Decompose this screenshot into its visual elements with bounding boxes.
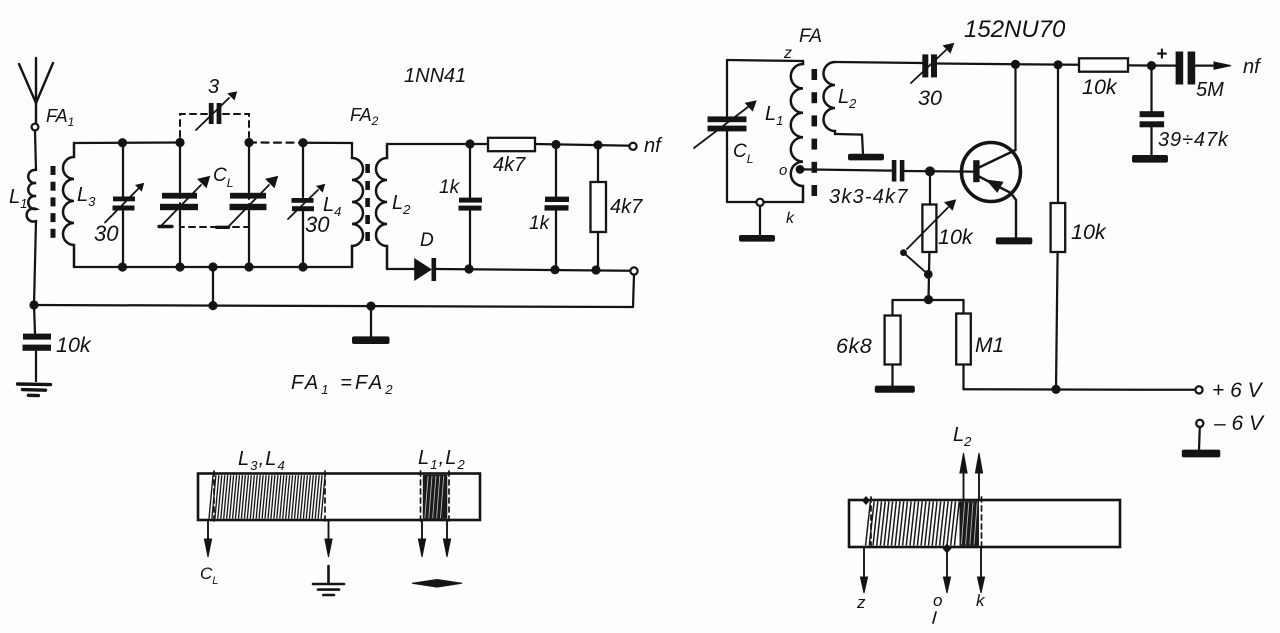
transistor emitter arrow: [988, 181, 1003, 192]
winding right rod: [866, 502, 960, 546]
svg-text:+ 6 V: + 6 V: [1212, 379, 1264, 402]
svg-text:10k: 10k: [1082, 75, 1118, 99]
ferrite rod left: [198, 474, 480, 521]
svg-text:D: D: [420, 230, 434, 251]
capacitor 39-47k: [1150, 66, 1152, 111]
node dots detector top: [465, 139, 602, 149]
capacitor 1k first: [469, 144, 471, 197]
svg-text:152NU70: 152NU70: [964, 16, 1066, 43]
svg-text:z: z: [856, 593, 866, 612]
wire CL bottom: [726, 131, 728, 202]
svg-text:10k: 10k: [1071, 220, 1107, 244]
inductor L2 left: [376, 144, 387, 269]
svg-text:L2: L2: [392, 192, 411, 217]
arrow leads L1L2 rod: [421, 520, 423, 542]
ground bar -6V: [1182, 450, 1221, 458]
core L1/L3: [51, 166, 56, 238]
transistor Q1 152NU70: [962, 143, 1021, 202]
arrow up L2 rod first: [963, 472, 965, 500]
node dot +6V rail: [1051, 385, 1060, 394]
wire detector top rail: [387, 143, 488, 145]
svg-text:L3,L4: L3,L4: [238, 448, 286, 473]
svg-text:CL: CL: [733, 141, 753, 166]
node dots pot bottom: [924, 270, 933, 304]
node k terminal circle: [756, 199, 763, 206]
wire cap to base: [904, 170, 973, 173]
arrow up L2 rod second: [978, 472, 980, 500]
arrow down z: [863, 547, 865, 578]
wire -6V ground stub: [1198, 427, 1201, 450]
svg-text:L2: L2: [838, 86, 857, 111]
svg-text:L1: L1: [9, 186, 27, 211]
ground three-bar rod: [313, 566, 344, 595]
svg-text:nf: nf: [644, 135, 663, 157]
diode D: [415, 260, 431, 280]
svg-text:4k7: 4k7: [493, 154, 526, 176]
inductor L4: [352, 158, 363, 267]
capacitor CL right variable: [708, 116, 747, 122]
wire L1 bottom to rail: [34, 221, 36, 305]
node base junction dot: [925, 166, 935, 176]
svg-text:30: 30: [94, 221, 119, 246]
node junction dots top rail: [118, 138, 308, 147]
node dot 5M junction: [1147, 61, 1156, 70]
wire bias tee bar: [893, 299, 964, 301]
wire trimmer to collector node: [937, 64, 1079, 65]
svg-text:1k: 1k: [529, 213, 551, 234]
svg-text:3k3-4k7: 3k3-4k7: [829, 186, 909, 208]
resistor 4k7 horizontal: [488, 138, 535, 151]
resistor 10k output horizontal: [1079, 58, 1128, 71]
wire antenna to L1: [35, 131, 36, 170]
capacitor 5M electrolytic: [1176, 52, 1184, 85]
wire tank to bottom rail: [212, 267, 214, 306]
wire k ground stub: [759, 206, 761, 236]
node dots detector bottom: [464, 264, 600, 274]
svg-text:o: o: [779, 162, 787, 179]
winding L3 L4: [209, 475, 325, 518]
core FA2: [365, 164, 370, 241]
ground bar L2 right: [848, 154, 884, 161]
node tap o dot: [796, 165, 805, 174]
wire output arrow nf: [1195, 64, 1218, 66]
ground bar 39-47k: [1132, 155, 1168, 163]
svg-text:1NN41: 1NN41: [404, 65, 466, 87]
svg-text:z: z: [783, 45, 792, 62]
node nf terminal top: [629, 143, 636, 150]
svg-text:6k8: 6k8: [836, 334, 872, 358]
inductor L1: [27, 170, 36, 222]
capacitor trimmer 30 right: [302, 143, 304, 197]
svg-text:FA1 =FA2: FA1 =FA2: [291, 372, 396, 397]
ground bar 6k8: [875, 386, 915, 393]
capacitor trimmer 30 left: [122, 143, 124, 196]
capacitor trimmer 3: [209, 103, 214, 124]
wire CL top: [727, 60, 803, 61]
inductor L1 right: [791, 61, 803, 202]
node FA1 terminal: [32, 124, 39, 131]
svg-text:o: o: [933, 591, 942, 610]
resistor 6k8: [891, 300, 893, 316]
resistor 4k7 vertical: [597, 145, 599, 182]
node dots bottom rail: [29, 300, 375, 310]
arrow lead CL rod: [207, 520, 209, 542]
node diamond top rod: [862, 496, 870, 505]
svg-text:10k: 10k: [938, 225, 974, 249]
svg-text:L1: L1: [765, 103, 783, 128]
svg-text:FA2: FA2: [350, 105, 379, 128]
capacitor 1k second: [555, 145, 557, 197]
wire tap o to coupling cap: [804, 169, 892, 170]
svg-text:CL: CL: [200, 564, 218, 587]
svg-text:CL: CL: [213, 165, 233, 190]
wire +6V rail: [964, 388, 1196, 391]
arrow down o: [946, 548, 948, 578]
wire output drop: [633, 275, 634, 307]
svg-text:10k: 10k: [56, 333, 92, 357]
svg-text:k: k: [786, 210, 795, 227]
wire pot bottom: [927, 252, 930, 300]
resistor 10k collector load: [1057, 65, 1059, 203]
node diamond o rod: [943, 544, 952, 554]
node -6V terminal: [1196, 420, 1203, 427]
wire top rail to trimmer: [835, 62, 922, 63]
svg-text:FA: FA: [799, 26, 822, 47]
node dots top right rail: [1011, 60, 1063, 70]
core FA right: [812, 69, 818, 196]
svg-text:M1: M1: [975, 334, 1004, 357]
wire detector bottom rail: [387, 268, 415, 270]
ground bar CL: [739, 235, 775, 242]
capacitor gang CL section 2: [248, 143, 250, 193]
node junction dots bottom tank rail: [118, 262, 308, 271]
svg-text:30: 30: [918, 86, 942, 110]
ground bar mid: [370, 306, 372, 337]
capacitor trimmer 30 right circuit: [922, 54, 928, 77]
svg-text:L2: L2: [953, 424, 972, 449]
wire long bottom rail: [34, 305, 633, 307]
ferrite rod right: [849, 500, 1120, 547]
svg-text:4k7: 4k7: [610, 196, 643, 218]
potentiometer 10k: [929, 171, 931, 204]
winding L1 L2 left rod: [423, 475, 448, 519]
arrow down k: [980, 547, 982, 578]
svg-text:k: k: [976, 591, 986, 610]
node +6V terminal: [1195, 386, 1202, 393]
dashed gang box: [180, 114, 249, 227]
svg-text:L1,L2: L1,L2: [418, 447, 466, 472]
wire L2 bottom to ground: [835, 134, 863, 154]
arrow double horizontal: [412, 580, 462, 588]
svg-text:39÷47k: 39÷47k: [1158, 129, 1229, 151]
capacitor 10k: [34, 305, 35, 333]
wire tank top rail: [74, 141, 180, 144]
svg-text:L4: L4: [323, 194, 341, 219]
wire tank bottom rail: [74, 266, 352, 268]
capacitor 3k3-4k7: [892, 160, 897, 182]
svg-text:– 6 V: – 6 V: [1213, 412, 1265, 435]
svg-text:+: +: [1156, 44, 1167, 65]
wire resistor to cap: [1128, 64, 1176, 66]
arrow lead ground rod: [328, 520, 330, 542]
inductor L3: [63, 143, 74, 267]
inductor L2 right: [824, 62, 836, 134]
winding L2 dense right rod: [960, 501, 980, 546]
svg-text:FA1: FA1: [46, 106, 74, 129]
svg-text:1k: 1k: [439, 177, 461, 198]
svg-text:3: 3: [208, 76, 219, 98]
svg-text:nf: nf: [1243, 56, 1262, 78]
capacitor gang CL section 1: [179, 143, 181, 193]
svg-text:5M: 5M: [1196, 79, 1224, 101]
node output terminal bottom: [630, 267, 637, 274]
ground bar emitter: [996, 237, 1033, 244]
svg-text:L3: L3: [77, 184, 96, 209]
antenna: [19, 58, 53, 123]
ground left hatched: [18, 384, 51, 396]
resistor M1: [962, 300, 964, 314]
